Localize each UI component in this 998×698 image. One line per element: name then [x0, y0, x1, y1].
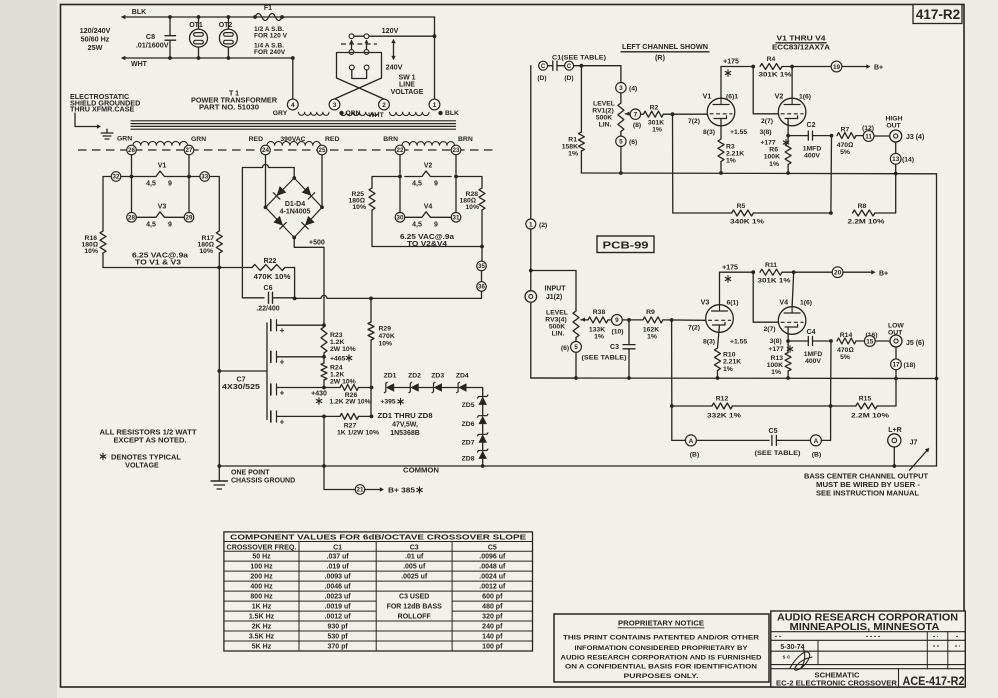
terminal 19 [831, 61, 842, 72]
svg-text:.0093 uf: .0093 uf [325, 574, 352, 581]
switch SW1 second contacts [349, 50, 369, 55]
terminal 35 [477, 261, 487, 271]
svg-text:(6): (6) [629, 139, 637, 146]
capacitor C7 section 4 [271, 411, 340, 427]
wire zd3-zd4 [442, 387, 458, 389]
label LEFT CHANNEL SHOWN [621, 42, 709, 62]
svg-text:THIS PRINT CONTAINS PATENTED A: THIS PRINT CONTAINS PATENTED AND/OR OTHE… [563, 635, 759, 642]
svg-text:.0019 uf: .0019 uf [325, 604, 352, 611]
capacitor C7 section 2 [271, 351, 324, 366]
svg-text:INPUT: INPUT [545, 286, 567, 293]
label pin 7(2) V3 [688, 325, 700, 332]
svg-text:6(1): 6(1) [726, 300, 738, 307]
svg-text:31: 31 [453, 215, 460, 222]
svg-text:C3: C3 [410, 544, 419, 551]
svg-text:R7: R7 [841, 127, 850, 134]
svg-text:100K: 100K [767, 362, 783, 369]
tube V1 [707, 98, 735, 126]
svg-text:R22: R22 [264, 258, 277, 265]
node R2 grid junction [671, 112, 675, 116]
node R9 grid junction [670, 318, 674, 322]
outlet OT2 [219, 15, 238, 60]
jack J3 HIGH OUT [886, 116, 925, 142]
wire R29 bus down [370, 340, 374, 418]
transformer core [131, 121, 456, 129]
label 3(8) V4 cathode [770, 338, 782, 345]
wire 33 to R17 rail [210, 177, 220, 232]
zener ZD5 [462, 395, 488, 409]
svg-text:47V,5W,: 47V,5W, [392, 422, 418, 429]
svg-text:1%: 1% [594, 334, 604, 341]
label LEVEL RV1 500K LIN [592, 101, 615, 129]
svg-text:2.2M 10%: 2.2M 10% [851, 413, 889, 420]
label +395 [380, 398, 403, 405]
svg-text:V3: V3 [701, 298, 710, 307]
svg-text:LINE: LINE [399, 82, 415, 89]
diode D2 bridge top-right [302, 186, 315, 199]
svg-text:R13: R13 [771, 355, 784, 362]
svg-text:+175: +175 [723, 59, 739, 66]
svg-text:17: 17 [892, 362, 900, 369]
resistor R5 [730, 203, 764, 226]
svg-text:7(2): 7(2) [688, 118, 700, 125]
svg-text:+395: +395 [380, 399, 396, 406]
svg-text:COMMON: COMMON [403, 468, 439, 475]
svg-text:+175: +175 [722, 265, 738, 272]
resistor R14 [837, 332, 864, 361]
label ONE POINT CHASSIS GROUND [231, 470, 295, 485]
label 120/240V 50/60Hz 25W [80, 26, 111, 52]
svg-text:(D): (D) [537, 75, 546, 82]
svg-text:V1: V1 [158, 163, 167, 170]
svg-text:V3: V3 [158, 204, 167, 211]
label electrostatic shield note [70, 92, 140, 114]
wire SW1 cross to terminal 3 [335, 78, 382, 99]
terminal 36 [477, 282, 487, 292]
svg-text:C8: C8 [146, 32, 155, 41]
capacitor C8 [136, 15, 176, 60]
node C2 right [830, 134, 834, 138]
capacitor C6 [242, 285, 294, 313]
wire C2 node down to feedback [830, 136, 833, 213]
table rows data [249, 554, 506, 651]
svg-text:7: 7 [634, 112, 638, 119]
svg-text:100 Hz: 100 Hz [250, 564, 273, 571]
svg-text:ZD6: ZD6 [462, 421, 475, 428]
svg-text:9: 9 [168, 181, 172, 188]
svg-text:ZD4: ZD4 [456, 373, 469, 380]
svg-text:V2: V2 [775, 92, 784, 101]
resistor R38 [588, 309, 611, 341]
svg-text:+177: +177 [768, 346, 784, 353]
secondary winding RED 390VAC [267, 141, 321, 150]
svg-text:6.25 VAC@.9a: 6.25 VAC@.9a [400, 234, 454, 241]
wire 24 to bridge left vertex [265, 155, 267, 208]
box PCB-99 [597, 236, 654, 253]
svg-text:COMPONENT VALUES FOR 6dB/OCTAV: COMPONENT VALUES FOR 6dB/OCTAVE CROSSOVE… [230, 535, 526, 542]
terminal 1 input bus [526, 219, 548, 229]
primary winding 3-2 [340, 112, 379, 115]
note denotes typical voltage [100, 453, 181, 470]
label V4 [779, 298, 812, 307]
svg-text:50 Hz: 50 Hz [252, 554, 271, 561]
svg-text:370 pf: 370 pf [327, 644, 348, 651]
svg-text:OT2: OT2 [219, 22, 233, 29]
wire upper cathode rail [581, 172, 936, 175]
svg-text:BLK: BLK [445, 110, 459, 117]
label 240V with range arrow [386, 39, 403, 72]
terminal 3 [329, 99, 340, 110]
label SW1 LINE VOLTAGE [391, 75, 424, 97]
terminal 7 RV1 wiper [625, 109, 641, 129]
svg-text:C2: C2 [807, 122, 816, 129]
bridge diamond edges [264, 176, 324, 239]
svg-text:1%: 1% [647, 334, 657, 341]
svg-text:ZD1 THRU ZD8: ZD1 THRU ZD8 [378, 413, 433, 420]
heater V2 [405, 163, 451, 188]
label +175 upper [723, 59, 739, 77]
wire 23 junction to R28 [456, 177, 482, 189]
svg-text:R2: R2 [650, 105, 659, 112]
wire lower cathode rail [531, 377, 937, 380]
switch SW1 inner contacts with link [349, 65, 369, 78]
svg-text:SEE INSTRUCTION MANUAL: SEE INSTRUCTION MANUAL [816, 491, 920, 498]
primary winding 2-1 [390, 112, 429, 115]
wire 36 to B+ rail [481, 291, 483, 298]
svg-text:ZD8: ZD8 [462, 456, 475, 463]
svg-text:R6: R6 [769, 147, 778, 154]
node R4 right B+ [790, 65, 794, 69]
svg-text:23: 23 [453, 147, 460, 154]
wire R25 to bottom rail [371, 210, 373, 247]
terminal 13 [890, 153, 914, 164]
wire B+385 rail with hop over +500 [295, 295, 482, 300]
resistor R1 [562, 66, 585, 173]
wire A to C5 [696, 439, 769, 441]
label ORN with dot [339, 110, 360, 117]
terminal 24 [261, 145, 271, 155]
svg-text:ACE-417-R2: ACE-417-R2 [903, 674, 965, 688]
wire left bus vertical [530, 66, 532, 291]
svg-text:25: 25 [319, 147, 326, 154]
svg-text:R3: R3 [726, 144, 735, 151]
label +177 V2 [760, 139, 788, 146]
label date 5-30-74 [780, 644, 804, 651]
resistor R6 cathode V2 [764, 136, 791, 175]
terminal 23 [451, 145, 461, 155]
table column heads [227, 544, 497, 551]
wire 15 to J5 [875, 340, 890, 342]
svg-text:LOW: LOW [888, 322, 904, 329]
svg-text:V1: V1 [703, 92, 712, 101]
wire shield note arrow [75, 113, 101, 129]
resistor R17 [197, 231, 222, 255]
svg-text:F1: F1 [264, 5, 272, 12]
svg-text:R24: R24 [330, 365, 343, 372]
svg-text:158K: 158K [562, 144, 578, 151]
terminal 32 [111, 172, 121, 182]
svg-text:500K: 500K [549, 324, 565, 331]
label V2 [775, 92, 811, 101]
svg-text:332K 1%: 332K 1% [707, 413, 741, 420]
svg-text:10%: 10% [465, 204, 479, 211]
svg-text:C7: C7 [237, 377, 246, 384]
svg-text:20: 20 [834, 270, 842, 277]
wire feedback rail lower left [670, 404, 712, 408]
label 6.25VAC to V2 V4 [400, 234, 454, 248]
terminal 5 RV1 [616, 136, 638, 146]
wire J7 to common [892, 447, 896, 468]
resistor R3 cathode V1 [718, 119, 744, 175]
svg-text:2.21K: 2.21K [726, 151, 744, 158]
svg-text:LIN.: LIN. [599, 122, 612, 129]
svg-text:TO V1 & V3: TO V1 & V3 [135, 260, 181, 267]
pot RV1 [618, 93, 624, 136]
outlet OT1 [189, 15, 207, 60]
svg-text:(D): (D) [564, 75, 573, 82]
svg-text:.0023 uf: .0023 uf [325, 594, 352, 601]
svg-text:3: 3 [619, 85, 623, 92]
svg-text:1%: 1% [769, 161, 779, 168]
wiper RV3 with R38 [581, 317, 588, 321]
wire to terminal 35 [481, 247, 483, 262]
svg-text:1%: 1% [726, 158, 736, 165]
zener ZD3 [431, 373, 444, 393]
svg-text:.0024 uf: .0024 uf [479, 574, 506, 581]
svg-text:8(3): 8(3) [703, 339, 715, 346]
svg-text:29: 29 [186, 215, 193, 222]
svg-text:1K 1/2W 10%: 1K 1/2W 10% [337, 430, 379, 437]
wire +175 node lower [720, 270, 756, 274]
wire R28 to bottom rail [481, 210, 483, 247]
label GRN left [117, 136, 132, 143]
diode D3 bridge bottom-left [273, 216, 286, 229]
svg-text:(14): (14) [902, 157, 914, 164]
svg-text:FOR 240V: FOR 240V [254, 49, 286, 56]
label BRN right [458, 136, 473, 143]
svg-text:2W 10%: 2W 10% [330, 346, 356, 353]
resistor R15 [851, 396, 889, 420]
svg-text:C3: C3 [610, 344, 619, 351]
svg-text:301K 1%: 301K 1% [758, 278, 791, 285]
label pin 7(2) V1 [688, 118, 700, 125]
svg-text:.22/400: .22/400 [256, 306, 279, 313]
wire right bus down [935, 174, 939, 466]
wire WHT line [121, 56, 293, 68]
zener ZD6 [462, 405, 488, 428]
wire R12 to node [732, 404, 855, 408]
wire C1 to RV1 top [574, 64, 621, 83]
svg-text:SW 1: SW 1 [398, 75, 415, 82]
svg-text:ZD2: ZD2 [408, 373, 421, 380]
terminal 27 [184, 145, 194, 155]
heater V3 [127, 204, 194, 229]
wire V2 cathode node [786, 119, 790, 138]
label V1 [703, 92, 739, 101]
terminal 11 [863, 131, 874, 142]
svg-text:+177: +177 [760, 140, 776, 147]
svg-text:35: 35 [478, 263, 485, 270]
svg-text:OT1: OT1 [189, 22, 203, 29]
wire to terminal 20 [794, 271, 832, 273]
svg-text:1K Hz: 1K Hz [252, 604, 272, 611]
wire R22C6 right rail [293, 268, 297, 301]
label ZD1 THRU ZD8 [378, 413, 433, 437]
wire 32 to R16 rail [103, 177, 111, 232]
svg-text:+: + [280, 326, 285, 335]
svg-text:EXCEPT AS NOTED.: EXCEPT AS NOTED. [114, 436, 187, 445]
svg-text:s c: s c [783, 655, 791, 661]
svg-text:340K 1%: 340K 1% [730, 219, 764, 226]
wire feedback rail left [673, 212, 732, 214]
label sc initials [783, 655, 791, 661]
wire zd1-zd2 [394, 387, 410, 389]
zener ZD4 [456, 373, 469, 393]
svg-text:C: C [541, 64, 546, 70]
wire 22 down [398, 155, 402, 218]
svg-text:301K 1%: 301K 1% [759, 72, 792, 79]
jack J7 L+R [888, 427, 918, 447]
tube V4 [778, 307, 806, 335]
svg-text:930 pf: 930 pf [327, 624, 348, 631]
resistor R28 [459, 188, 485, 211]
resistor R16 [81, 231, 106, 255]
svg-text:T 1: T 1 [229, 91, 239, 98]
svg-text:32: 32 [113, 174, 120, 181]
svg-text:470Ω: 470Ω [837, 142, 854, 149]
terminal 25 [317, 145, 327, 155]
svg-text:10%: 10% [352, 204, 366, 211]
svg-text:120V: 120V [382, 26, 399, 35]
wire 120V line to switch [352, 26, 435, 36]
switch SW1 plug body [337, 53, 382, 79]
fuse F1 [253, 5, 284, 21]
svg-text:A: A [689, 438, 694, 445]
svg-text:CROSSOVER FREQ.: CROSSOVER FREQ. [227, 544, 297, 551]
svg-text:3(8): 3(8) [770, 338, 782, 345]
svg-text:GRN: GRN [117, 136, 132, 143]
svg-text:301K: 301K [648, 120, 664, 127]
svg-text:4,5: 4,5 [412, 222, 422, 229]
svg-text:162K: 162K [643, 327, 659, 334]
svg-text:R23: R23 [330, 332, 343, 339]
resistor R29 [368, 298, 395, 347]
resistor R2 [641, 105, 708, 134]
svg-text:470Ω: 470Ω [837, 347, 854, 354]
svg-text:PURPOSES ONLY.: PURPOSES ONLY. [624, 673, 699, 680]
svg-text:R5: R5 [737, 203, 746, 210]
wire R5 to node [753, 211, 833, 215]
svg-text:200 Hz: 200 Hz [250, 574, 273, 581]
label SCHEMATIC EC-2 [776, 673, 897, 688]
svg-text:5: 5 [619, 139, 623, 146]
wire V4 grid coupling [753, 272, 778, 322]
svg-text:RED: RED [249, 136, 263, 143]
svg-text:(8): (8) [633, 122, 641, 129]
label BASS CENTER CHANNEL OUTPUT [804, 474, 929, 498]
wire zd4 to vertical chain [467, 388, 483, 397]
svg-text:13: 13 [892, 156, 900, 163]
svg-text:30: 30 [397, 215, 404, 222]
svg-text:EC-2 ELECTRONIC CROSSOVER: EC-2 ELECTRONIC CROSSOVER [776, 680, 897, 687]
svg-text:2.2M 10%: 2.2M 10% [848, 219, 885, 226]
svg-text:.0025 uf: .0025 uf [401, 574, 428, 581]
svg-text:4,5: 4,5 [146, 222, 156, 229]
resistor R25 [348, 188, 375, 211]
svg-text:9: 9 [434, 181, 438, 188]
svg-text:3(8): 3(8) [759, 129, 771, 136]
label +175 lower [722, 265, 738, 283]
resistor R9 [643, 309, 706, 341]
arrow B+ upper [842, 64, 883, 71]
svg-text:.0048 uf: .0048 uf [479, 564, 506, 571]
terminal 33 [200, 172, 210, 182]
svg-text:240V: 240V [386, 63, 403, 72]
svg-text:LIN.: LIN. [552, 331, 565, 338]
wire filament bottom rail [103, 266, 242, 270]
tube V2 [778, 98, 806, 126]
svg-text:9: 9 [168, 222, 172, 229]
label +177 V4 [768, 346, 792, 353]
wire 27 down [187, 155, 191, 218]
label 6.25VAC to V1 V3 [132, 253, 188, 267]
arrow B+ lower [843, 270, 888, 278]
label V3 [701, 298, 739, 307]
wire zd8 to common [481, 459, 485, 468]
zener ZD2 [408, 373, 421, 393]
svg-text:LEVEL: LEVEL [593, 101, 615, 108]
svg-text:4X30/525: 4X30/525 [222, 384, 260, 391]
svg-text:4,5: 4,5 [412, 181, 422, 188]
note all resistors [100, 428, 198, 445]
svg-text:V1 THRU V4: V1 THRU V4 [777, 34, 826, 43]
tube V3 [706, 305, 734, 333]
svg-text:5: 5 [574, 344, 578, 351]
svg-text:400V: 400V [805, 358, 821, 365]
wire RV1 bottom to rail [619, 147, 623, 175]
svg-text:C4: C4 [807, 329, 816, 336]
svg-text:BRN: BRN [383, 136, 398, 143]
wire V2 grid coupling [753, 67, 778, 114]
wire C5 to A right [776, 439, 810, 441]
svg-text:(4): (4) [629, 86, 637, 93]
svg-text:470K 10%: 470K 10% [254, 274, 292, 281]
svg-text:V2: V2 [424, 163, 433, 170]
wire V2 plate to B+ node [791, 67, 793, 99]
label RED left [249, 136, 263, 143]
zener ZD7 [462, 424, 488, 446]
wire BLK top line [121, 9, 435, 19]
wire grid bus down lower [671, 320, 673, 406]
label D1-D4 4-1N4005 [280, 201, 311, 216]
wire C4 node down to feedback [830, 341, 832, 406]
svg-text:400 Hz: 400 Hz [250, 584, 273, 591]
svg-text:28: 28 [128, 215, 135, 222]
terminal 17 [891, 359, 916, 370]
svg-text:1%: 1% [568, 151, 578, 158]
terminal 1 [429, 99, 440, 110]
svg-text:5%: 5% [840, 354, 850, 361]
wire R16 to bottom rail [102, 253, 104, 268]
svg-text:5-30-74: 5-30-74 [780, 644, 804, 651]
svg-text:+: + [280, 418, 285, 427]
label pin 2(7) V4 [763, 326, 775, 333]
svg-text:3.5K Hz: 3.5K Hz [249, 634, 275, 641]
svg-text:ECC83/12AX7A: ECC83/12AX7A [772, 43, 830, 52]
zener ZD1 [384, 373, 397, 393]
svg-text:2(7): 2(7) [763, 326, 775, 333]
shield dashed line [78, 149, 498, 151]
